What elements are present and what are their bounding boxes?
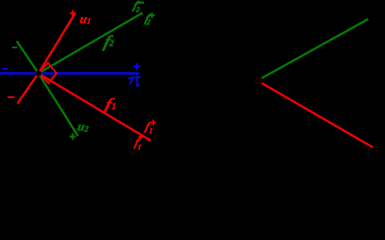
wire: u2 axis negative ray (green) [17,41,39,73]
label f1 minus (end) [133,136,144,151]
label f1 (middle) [103,95,117,114]
label f2 minus (end) [132,0,144,14]
node plus blue [134,63,141,70]
node plus u2 [70,134,76,140]
label pi (blue axis name) [128,77,140,85]
right diagram: green ray [262,19,369,78]
origin dot (black over lines) [36,71,41,76]
label f2 plus (end) [144,12,155,26]
wire: u1 axis negative ray (red) [17,73,38,103]
wire: u1 axis positive ray (red) [38,14,74,73]
right diagram: red ray [262,83,373,147]
wire: f2 ray (green) [38,13,142,74]
node plus u1 [70,10,76,16]
node minus u1 [8,96,15,98]
right-angle diamond marker (red) [38,63,56,83]
label f2 (middle) [102,32,115,51]
right diagram: vertex circle [256,78,262,84]
wire: f1 ray (red) [38,73,150,140]
node minus blue [2,68,8,70]
wire: blue axis line [0,71,140,75]
node minus u2 [12,47,17,49]
label u1 [79,12,92,26]
label f1 plus (end) [144,120,156,135]
svg-text:2: 2 [83,124,89,133]
wire: u2 axis positive ray (green) [38,73,78,136]
label u2 [76,120,89,134]
